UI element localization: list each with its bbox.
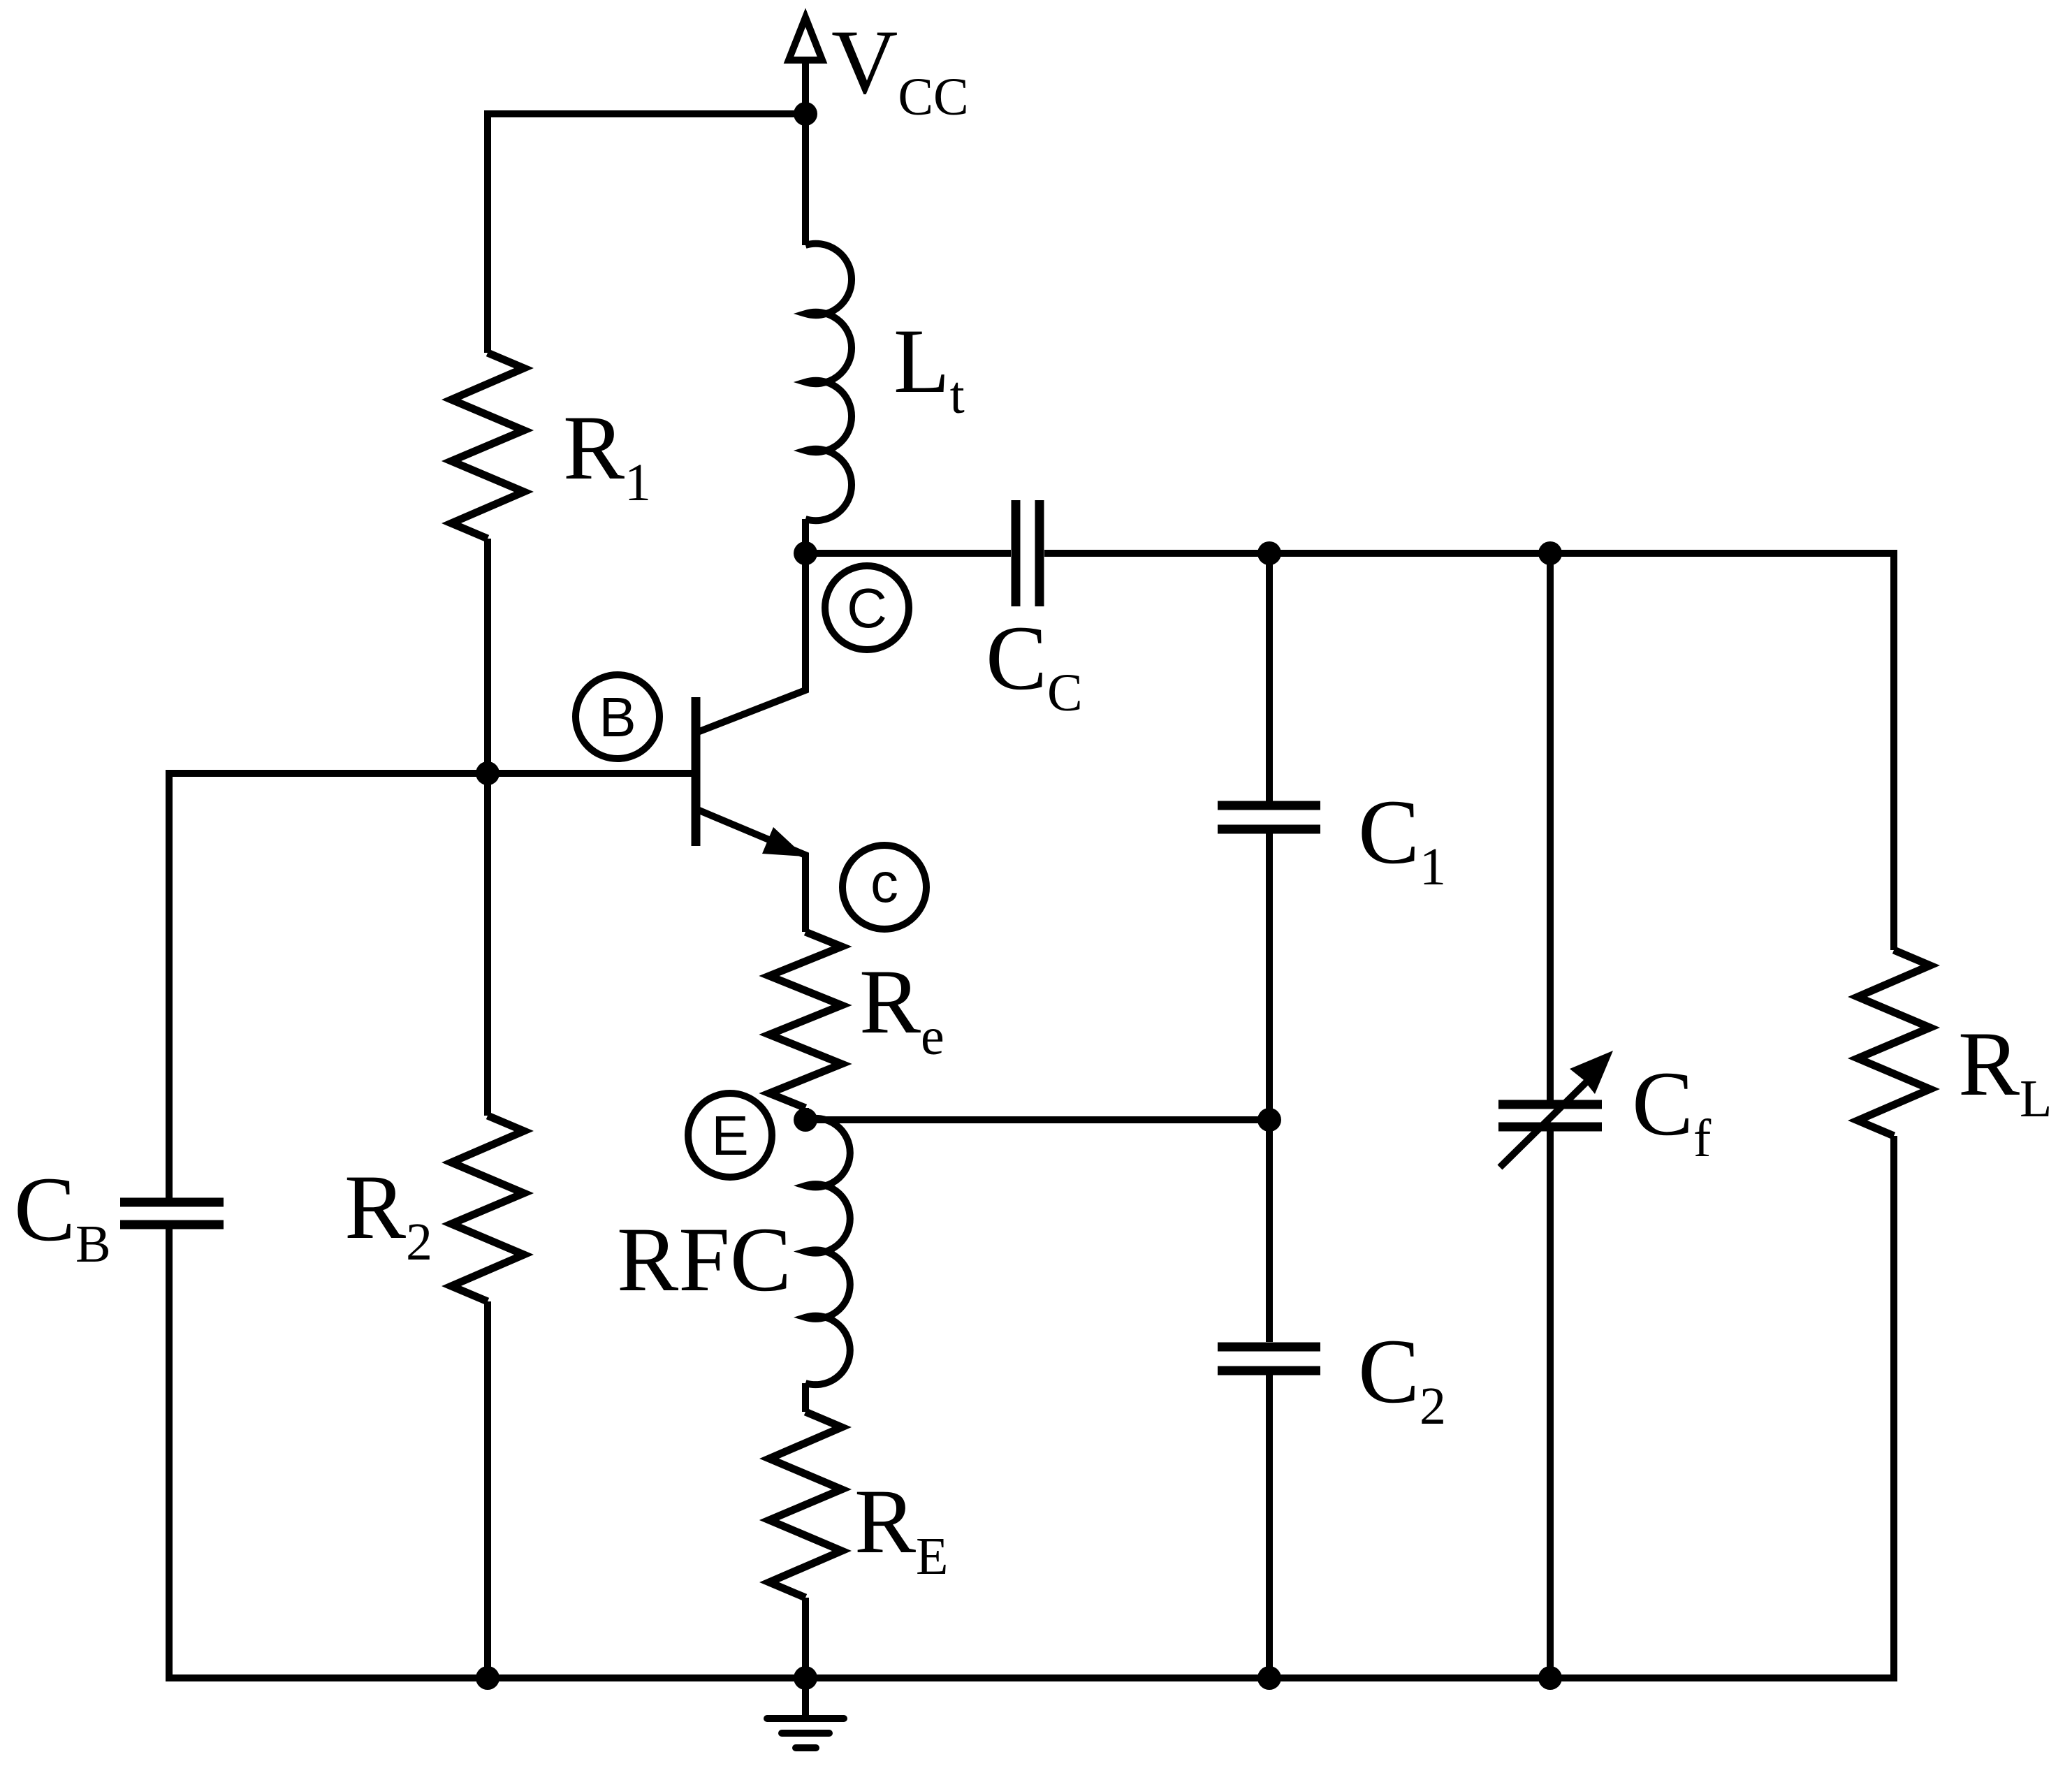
svg-text:RFC: RFC bbox=[617, 1208, 791, 1311]
svg-text:B: B bbox=[599, 686, 636, 748]
svg-text:c: c bbox=[870, 852, 898, 914]
svg-text:E: E bbox=[711, 1104, 748, 1167]
svg-text:C: C bbox=[847, 577, 887, 639]
